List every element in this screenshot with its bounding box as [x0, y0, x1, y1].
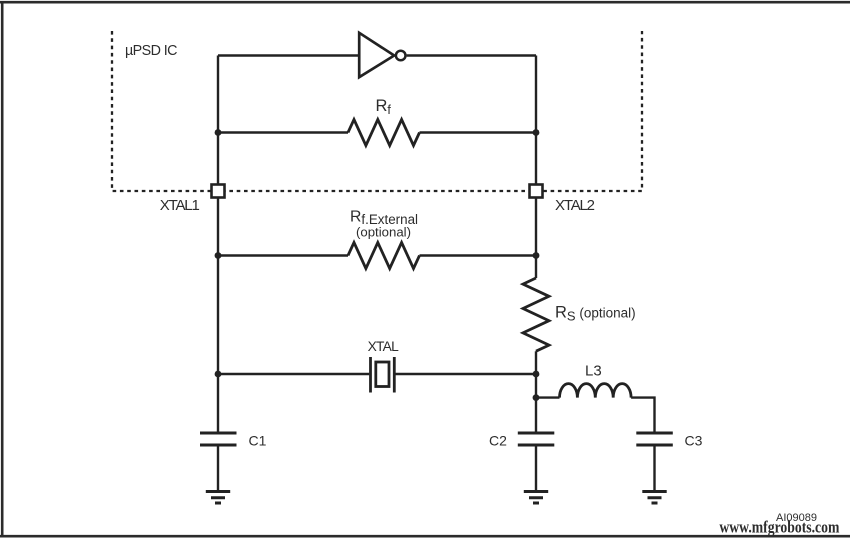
wire: L3 to C3: [631, 398, 654, 432]
junction dot XTAL right: [533, 371, 540, 378]
svg-text:C1: C1: [249, 432, 267, 448]
svg-text:XTAL: XTAL: [368, 339, 400, 354]
op-amp inverter U1: [359, 33, 405, 77]
pin XTAL1 square: [212, 185, 225, 198]
crystal XTAL: [371, 357, 395, 393]
junction dot Rf.External right: [533, 252, 540, 259]
capacitor C3: [636, 433, 673, 445]
junction dot XTAL left: [215, 371, 222, 378]
wire: L3 branch: [536, 396, 560, 398]
svg-text:Rf: Rf: [376, 97, 392, 117]
capacitor C2: [518, 433, 555, 445]
wire: left rail XTAL1: [217, 56, 219, 434]
svg-text:C2: C2: [489, 432, 507, 448]
svg-text:µPSD IC: µPSD IC: [125, 43, 178, 59]
wire: right rail XTAL2 upper: [535, 56, 537, 279]
resistor R_f: [348, 120, 419, 146]
ground under C3: [642, 492, 666, 504]
resistor RS: [523, 278, 549, 351]
wire: Rf feedback row: [218, 131, 536, 133]
wire: C2 to ground: [535, 446, 537, 491]
junction dot Rf right: [533, 129, 540, 136]
svg-text:XTAL1: XTAL1: [160, 197, 200, 214]
wire: C1 to ground: [217, 446, 219, 491]
svg-text:C3: C3: [685, 432, 703, 448]
junction dot Rf left: [215, 129, 222, 136]
capacitor C1: [200, 433, 237, 445]
ground under C1: [206, 492, 230, 504]
wire: inverter output: [407, 54, 536, 56]
wire: Rf.External row: [218, 254, 536, 256]
wire: C3 to ground: [653, 446, 655, 491]
svg-text:XTAL2: XTAL2: [555, 197, 595, 214]
wire: inverter input: [218, 54, 359, 56]
ground under C2: [524, 492, 548, 504]
pin XTAL2 square: [530, 185, 543, 198]
svg-text:L3: L3: [585, 363, 602, 380]
junction dot L3 tap: [533, 394, 540, 401]
wire: right rail XTAL2 lower: [535, 351, 537, 433]
svg-text:RS (optional): RS (optional): [555, 304, 636, 324]
wire: XTAL row: [218, 373, 536, 375]
svg-text:(optional): (optional): [356, 225, 411, 240]
resistor Rf.External: [348, 243, 419, 269]
inductor L3: [560, 384, 632, 398]
svg-text:www.mfgrobots.com: www.mfgrobots.com: [719, 518, 839, 537]
junction dot Rf.External left: [215, 252, 222, 259]
dashed IC boundary box: [112, 31, 642, 191]
